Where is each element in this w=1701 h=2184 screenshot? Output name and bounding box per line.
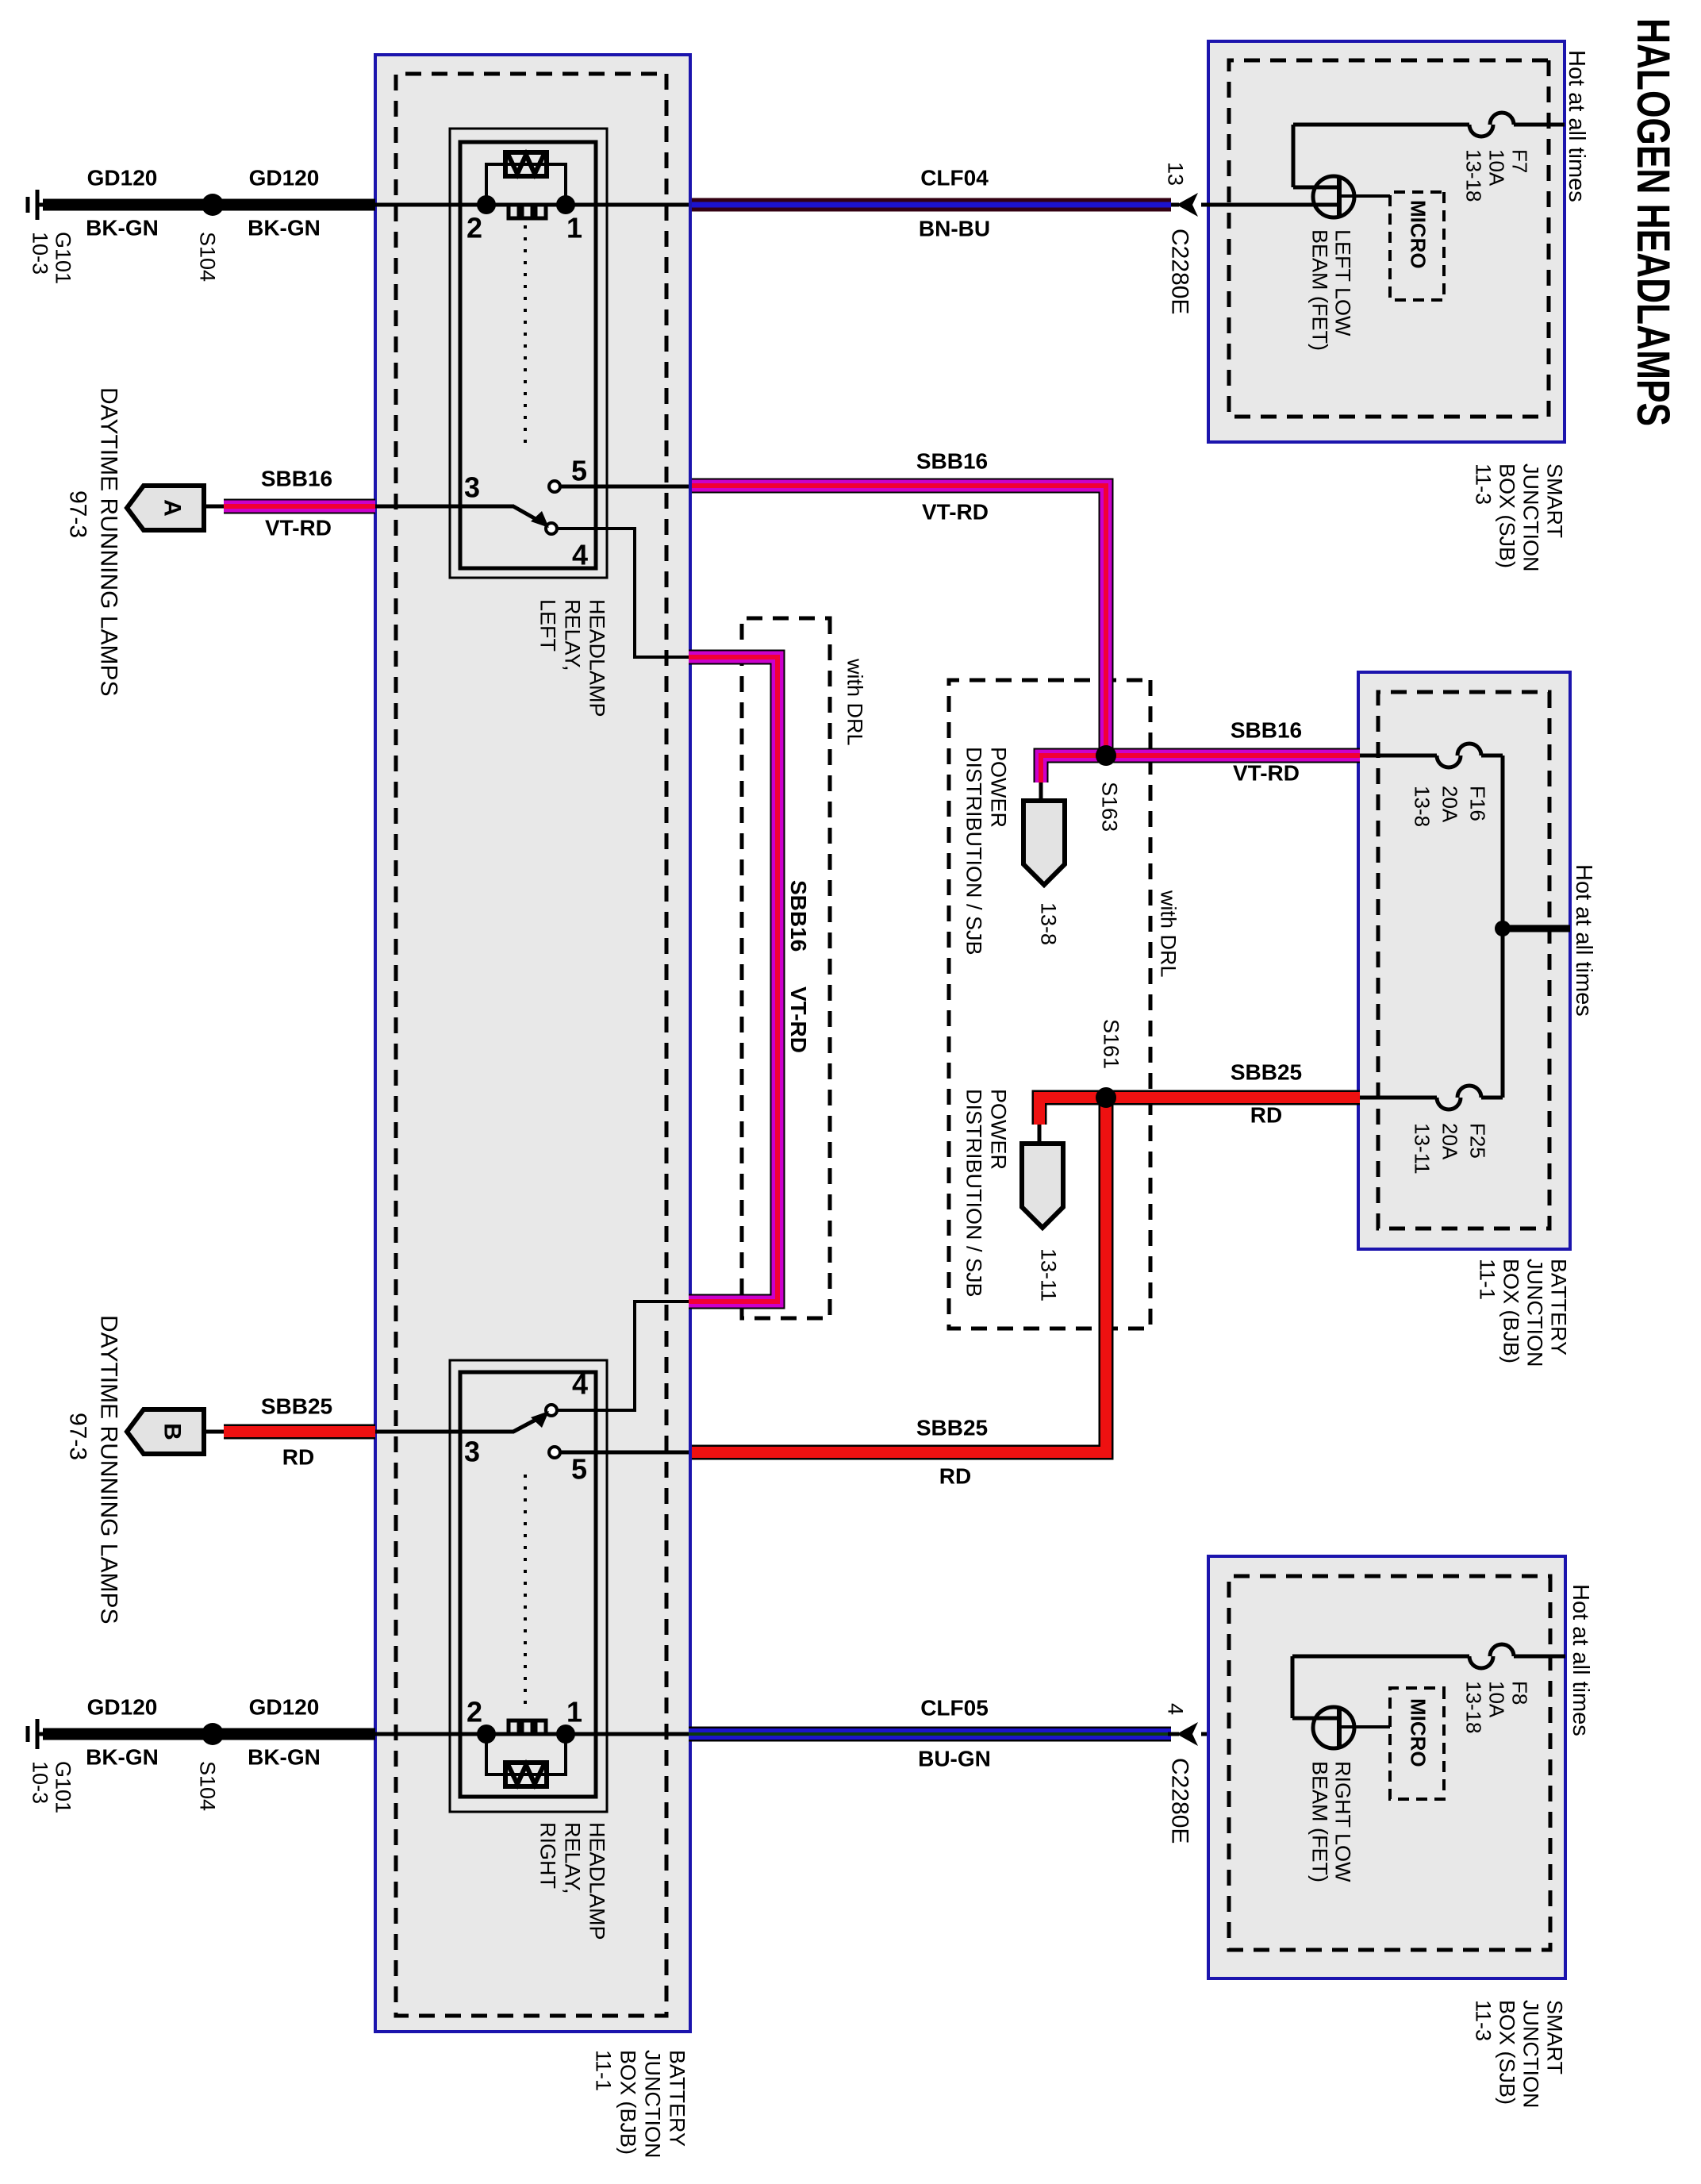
wire: SJB-L feed from Hot at all times <box>1514 123 1565 127</box>
relay 1 armature dotted link <box>524 225 527 448</box>
svg-text:10-3: 10-3 <box>29 1761 52 1804</box>
connector 13-11 (power distribution / SJB) <box>1022 1144 1063 1228</box>
svg-text:RELAY,: RELAY, <box>561 599 585 671</box>
svg-text:HEADLAMP: HEADLAMP <box>586 1822 609 1940</box>
wire SBB16 VT-RD: DRL bridge relay1 pin4 to relay2 pin4 <box>689 657 778 1302</box>
relay coil resistor rectangle with zigzag <box>505 1763 547 1786</box>
connector C2280E pin 13 (arrow) <box>1177 193 1198 217</box>
svg-text:4: 4 <box>1164 1703 1188 1715</box>
relay coil winding (square staples) <box>536 1721 546 1734</box>
wire: bus to F25 <box>1481 1096 1503 1100</box>
wire SBB25 RD: S161 to relay2 pin5 <box>689 1105 1106 1452</box>
svg-text:BATTERY: BATTERY <box>666 2050 689 2147</box>
wire: S161 branch to connector 13-11 <box>1039 1098 1106 1125</box>
svg-text:3: 3 <box>464 1436 480 1468</box>
wire: CLF05 into relay2 pin1 <box>566 1732 689 1736</box>
wire CLF05 BU-GN <box>689 1727 1171 1742</box>
BJB dashed border <box>1378 692 1549 1228</box>
svg-text:SBB16: SBB16 <box>786 880 811 952</box>
svg-text:VT-RD: VT-RD <box>922 500 989 525</box>
svg-text:SBB16: SBB16 <box>1231 718 1302 743</box>
BJB fuse box (BATTERY JUNCTION BOX) <box>1358 672 1570 1249</box>
wire SBB25 RD from F25 to S161 <box>1106 1090 1360 1105</box>
svg-text:GD120: GD120 <box>249 166 320 190</box>
wire through relay coil <box>486 203 566 207</box>
wire SBB25 RD: relay2 pin3 to connector B <box>224 1425 375 1440</box>
svg-text:GD120: GD120 <box>87 166 158 190</box>
junction: relay2 pin1 node <box>556 1725 575 1744</box>
wire: right FET source to connector C2280E <box>1201 1732 1340 1736</box>
dashed box: with DRL (bridge) <box>742 618 830 1318</box>
wire: SJB-R feed from Hot at all times <box>1514 1655 1565 1659</box>
relay 2 pin 4 contact <box>546 1405 557 1416</box>
relay 1 pin 5 contact <box>549 481 560 492</box>
svg-text:F7: F7 <box>1507 149 1531 173</box>
svg-text:4: 4 <box>572 539 588 571</box>
svg-text:LEFT LOW: LEFT LOW <box>1331 229 1355 336</box>
wire: BJB feed from Hot at all times <box>1503 925 1570 932</box>
relay 2 pin 5 contact <box>549 1447 560 1458</box>
svg-text:RIGHT LOW: RIGHT LOW <box>1331 1761 1355 1882</box>
junction: relay1 pin1 node <box>556 195 575 214</box>
svg-text:20A: 20A <box>1438 1123 1461 1160</box>
relay 1 outer box <box>450 129 607 578</box>
wire: relay2 pin5 to box edge <box>560 1451 689 1455</box>
svg-text:11-1: 11-1 <box>1476 1259 1499 1300</box>
svg-text:HALOGEN HEADLAMPS: HALOGEN HEADLAMPS <box>1627 18 1679 426</box>
connector A (to DAYTIME RUNNING LAMPS) <box>127 486 204 530</box>
svg-text:BEAM (FET): BEAM (FET) <box>1308 229 1332 351</box>
wire: FET gate to MICRO (right) <box>1341 1725 1390 1728</box>
svg-text:DAYTIME RUNNING LAMPS: DAYTIME RUNNING LAMPS <box>95 387 121 697</box>
svg-text:S163: S163 <box>1098 782 1122 832</box>
wire: relay1 pin4 to DRL bridge <box>557 529 689 657</box>
svg-text:13: 13 <box>1164 162 1188 186</box>
connector 13-8 (power distribution / SJB) <box>1023 801 1065 885</box>
transistor: RIGHT LOW BEAM (FET) <box>1313 1707 1354 1748</box>
svg-text:97-3: 97-3 <box>64 490 90 538</box>
wire: F16 to box edge <box>1357 754 1437 758</box>
svg-text:JUNCTION: JUNCTION <box>1519 463 1543 572</box>
svg-text:F8: F8 <box>1507 1681 1531 1705</box>
svg-text:11-3: 11-3 <box>1472 2000 1496 2041</box>
svg-text:BN-BU: BN-BU <box>919 217 990 241</box>
wire CLF04 BN-BU <box>689 198 1171 212</box>
svg-text:BATTERY: BATTERY <box>1547 1259 1571 1355</box>
svg-text:MICRO: MICRO <box>1406 1698 1430 1767</box>
SJB left box (SMART JUNCTION BOX) <box>1208 41 1565 442</box>
svg-text:SMART: SMART <box>1543 2000 1567 2074</box>
svg-text:SBB25: SBB25 <box>916 1416 988 1440</box>
svg-text:DISTRIBUTION / SJB: DISTRIBUTION / SJB <box>962 1089 986 1298</box>
wire: relay1 pin2 to box edge <box>375 203 486 207</box>
svg-text:G101: G101 <box>52 1761 75 1813</box>
SJB right box (SMART JUNCTION BOX) <box>1208 1556 1565 1978</box>
fuse F16 20A <box>1457 744 1481 756</box>
svg-text:13-18: 13-18 <box>1461 1681 1485 1734</box>
svg-text:13-8: 13-8 <box>1037 902 1061 945</box>
connector C2280E pin 4 (arrow) <box>1177 1722 1198 1746</box>
svg-text:F25: F25 <box>1465 1123 1489 1159</box>
dashed box: with DRL (power distribution) <box>949 680 1150 1328</box>
wire: bus to F16 <box>1481 754 1503 758</box>
wire: F25 to box edge <box>1357 1096 1437 1100</box>
svg-text:BK-GN: BK-GN <box>248 216 321 240</box>
wire: S163 branch to connector 13-8 <box>1041 756 1106 782</box>
svg-text:Hot at all times: Hot at all times <box>1568 1584 1593 1736</box>
svg-text:CLF05: CLF05 <box>920 1696 989 1721</box>
svg-text:Hot at all times: Hot at all times <box>1564 50 1589 202</box>
svg-text:10A: 10A <box>1484 1681 1508 1718</box>
relay 1 pin 4 contact <box>546 523 557 534</box>
svg-text:BK-GN: BK-GN <box>86 216 159 240</box>
svg-text:POWER: POWER <box>987 747 1011 828</box>
connector B (to DAYTIME RUNNING LAMPS) <box>127 1409 204 1454</box>
relay coil connection stubs <box>486 1734 566 1774</box>
wire: relay1 pin3 from box edge <box>375 505 514 509</box>
wire: F8 to FET drain <box>1292 1655 1469 1659</box>
svg-text:RD: RD <box>939 1464 971 1489</box>
svg-text:SBB25: SBB25 <box>1231 1060 1302 1085</box>
svg-text:SMART: SMART <box>1543 463 1567 538</box>
splice S163 <box>1096 745 1116 766</box>
svg-text:S104: S104 <box>196 232 220 282</box>
svg-text:JUNCTION: JUNCTION <box>1523 1259 1547 1367</box>
splice S104 (right) <box>202 1723 224 1745</box>
svg-text:13-11: 13-11 <box>1410 1123 1434 1175</box>
BJB relay box (BATTERY JUNCTION BOX, gray) <box>375 55 690 2032</box>
svg-text:GD120: GD120 <box>87 1695 158 1720</box>
svg-text:SBB16: SBB16 <box>916 449 988 474</box>
wire SBB16 VT-RD from F16 to S163 <box>1106 748 1360 763</box>
svg-text:VT-RD: VT-RD <box>1233 761 1300 786</box>
svg-text:BOX (SJB): BOX (SJB) <box>1496 2000 1519 2105</box>
junction: BJB feed node <box>1495 921 1511 936</box>
svg-text:5: 5 <box>571 1453 587 1486</box>
wire SBB16 VT-RD: S163 to relay1 pin5 <box>689 486 1106 763</box>
wire GD120 BK-GN: relay1 pin2 to ground G101 (left) <box>43 199 375 211</box>
wire GD120 BK-GN: relay2 pin2 to ground G101 (right) <box>43 1728 375 1740</box>
svg-text:11-3: 11-3 <box>1472 463 1496 505</box>
svg-text:BOX (BJB): BOX (BJB) <box>1499 1259 1523 1363</box>
MICRO dashed box (left) <box>1390 192 1444 300</box>
relay 1 switch blade <box>513 506 537 520</box>
wire SBB16 VT-RD: relay1 pin3 to connector A <box>224 499 375 514</box>
SJB right dashed border <box>1229 1576 1550 1950</box>
relay 2 inner box <box>460 1372 596 1797</box>
svg-text:CLF04: CLF04 <box>920 166 989 190</box>
BJB relay box dashed border <box>396 74 666 2016</box>
relay coil winding (square staples) <box>536 205 546 218</box>
svg-text:10A: 10A <box>1484 149 1508 186</box>
svg-text:4: 4 <box>572 1368 588 1401</box>
svg-text:S104: S104 <box>196 1761 220 1811</box>
relay coil connection stubs <box>486 164 566 205</box>
junction: relay1 pin2 node <box>477 195 496 214</box>
wire stub (right) <box>1168 1732 1179 1736</box>
wire stub to A <box>203 505 224 509</box>
svg-text:2: 2 <box>467 1696 482 1728</box>
svg-text:13-11: 13-11 <box>1037 1248 1061 1302</box>
svg-text:DAYTIME RUNNING LAMPS: DAYTIME RUNNING LAMPS <box>95 1315 121 1625</box>
svg-text:B: B <box>159 1423 186 1440</box>
fuse F7 10A <box>1490 113 1514 125</box>
svg-text:BOX (BJB): BOX (BJB) <box>616 2050 640 2155</box>
svg-text:RIGHT: RIGHT <box>536 1822 560 1889</box>
svg-text:A: A <box>159 499 186 517</box>
svg-text:Hot at all times: Hot at all times <box>1571 864 1596 1017</box>
svg-text:VT-RD: VT-RD <box>265 516 332 540</box>
svg-text:BOX (SJB): BOX (SJB) <box>1496 463 1519 568</box>
wire: relay2 pin4 to DRL bridge <box>557 1302 689 1410</box>
wire: F7 to FET drain <box>1293 123 1469 127</box>
relay 2 switch blade <box>513 1419 537 1432</box>
svg-text:13-8: 13-8 <box>1410 786 1434 827</box>
svg-text:RD: RD <box>1250 1103 1282 1128</box>
wire: relay2 pin2 to box edge <box>375 1732 486 1736</box>
relay 1 inner box <box>460 142 596 568</box>
svg-text:10-3: 10-3 <box>29 232 52 275</box>
wire: CLF04 into relay1 pin1 <box>566 203 689 207</box>
fuse F8 10A <box>1490 1644 1514 1656</box>
svg-text:HEADLAMP: HEADLAMP <box>586 599 609 717</box>
svg-text:2: 2 <box>467 212 482 244</box>
svg-text:POWER: POWER <box>987 1089 1011 1170</box>
relay coil resistor rectangle with zigzag <box>505 152 547 176</box>
svg-text:SBB16: SBB16 <box>261 467 332 491</box>
MICRO dashed box (right) <box>1390 1688 1444 1799</box>
relay 2 outer box <box>450 1360 607 1812</box>
svg-text:MICRO: MICRO <box>1406 200 1430 269</box>
splice S161 <box>1096 1087 1116 1108</box>
svg-text:RD: RD <box>282 1445 314 1470</box>
svg-text:1: 1 <box>566 212 582 244</box>
wire: FET source to connector C2280E <box>1201 203 1340 207</box>
svg-text:with DRL: with DRL <box>843 658 867 746</box>
svg-text:G101: G101 <box>52 232 75 284</box>
wire: relay2 pin3 from box edge <box>375 1430 514 1434</box>
wire: BJB internal bus <box>1501 756 1505 1098</box>
SJB left dashed border <box>1229 60 1549 417</box>
svg-text:LEFT: LEFT <box>536 599 560 652</box>
wire through relay coil <box>486 1732 566 1736</box>
svg-text:13-18: 13-18 <box>1461 149 1485 202</box>
svg-text:5: 5 <box>571 455 587 487</box>
svg-text:RELAY,: RELAY, <box>561 1822 585 1894</box>
wire stub to B <box>203 1430 224 1434</box>
svg-text:1: 1 <box>566 1696 582 1728</box>
svg-text:C2280E: C2280E <box>1166 1758 1192 1844</box>
ground G101 (right) <box>38 1732 43 1736</box>
transistor: LEFT LOW BEAM (FET) <box>1313 176 1354 217</box>
svg-text:BK-GN: BK-GN <box>248 1745 321 1770</box>
wire stub <box>1168 203 1179 207</box>
svg-text:S161: S161 <box>1100 1019 1123 1069</box>
svg-text:with DRL: with DRL <box>1157 890 1181 978</box>
svg-text:11-1: 11-1 <box>592 2050 616 2091</box>
svg-text:BEAM (FET): BEAM (FET) <box>1308 1761 1332 1882</box>
svg-text:BK-GN: BK-GN <box>86 1745 159 1770</box>
svg-text:3: 3 <box>464 471 480 504</box>
ground G101 (left) <box>38 203 43 207</box>
splice S104 (left) <box>202 194 224 216</box>
svg-text:F16: F16 <box>1465 786 1489 821</box>
relay 2 armature dotted link <box>524 1475 527 1710</box>
svg-text:DISTRIBUTION / SJB: DISTRIBUTION / SJB <box>962 747 986 955</box>
svg-text:JUNCTION: JUNCTION <box>1519 2000 1543 2109</box>
svg-text:JUNCTION: JUNCTION <box>641 2050 665 2159</box>
junction: relay2 pin2 node <box>477 1725 496 1744</box>
wire: relay1 pin5 to box edge <box>560 485 689 489</box>
svg-text:GD120: GD120 <box>249 1695 320 1720</box>
wire: FET gate to MICRO <box>1341 194 1390 198</box>
svg-text:97-3: 97-3 <box>64 1413 90 1460</box>
fuse F25 20A <box>1457 1086 1481 1098</box>
svg-text:VT-RD: VT-RD <box>786 986 811 1053</box>
svg-text:20A: 20A <box>1438 786 1461 823</box>
svg-text:BU-GN: BU-GN <box>918 1747 991 1771</box>
svg-text:SBB25: SBB25 <box>261 1394 332 1419</box>
svg-text:C2280E: C2280E <box>1166 229 1192 314</box>
